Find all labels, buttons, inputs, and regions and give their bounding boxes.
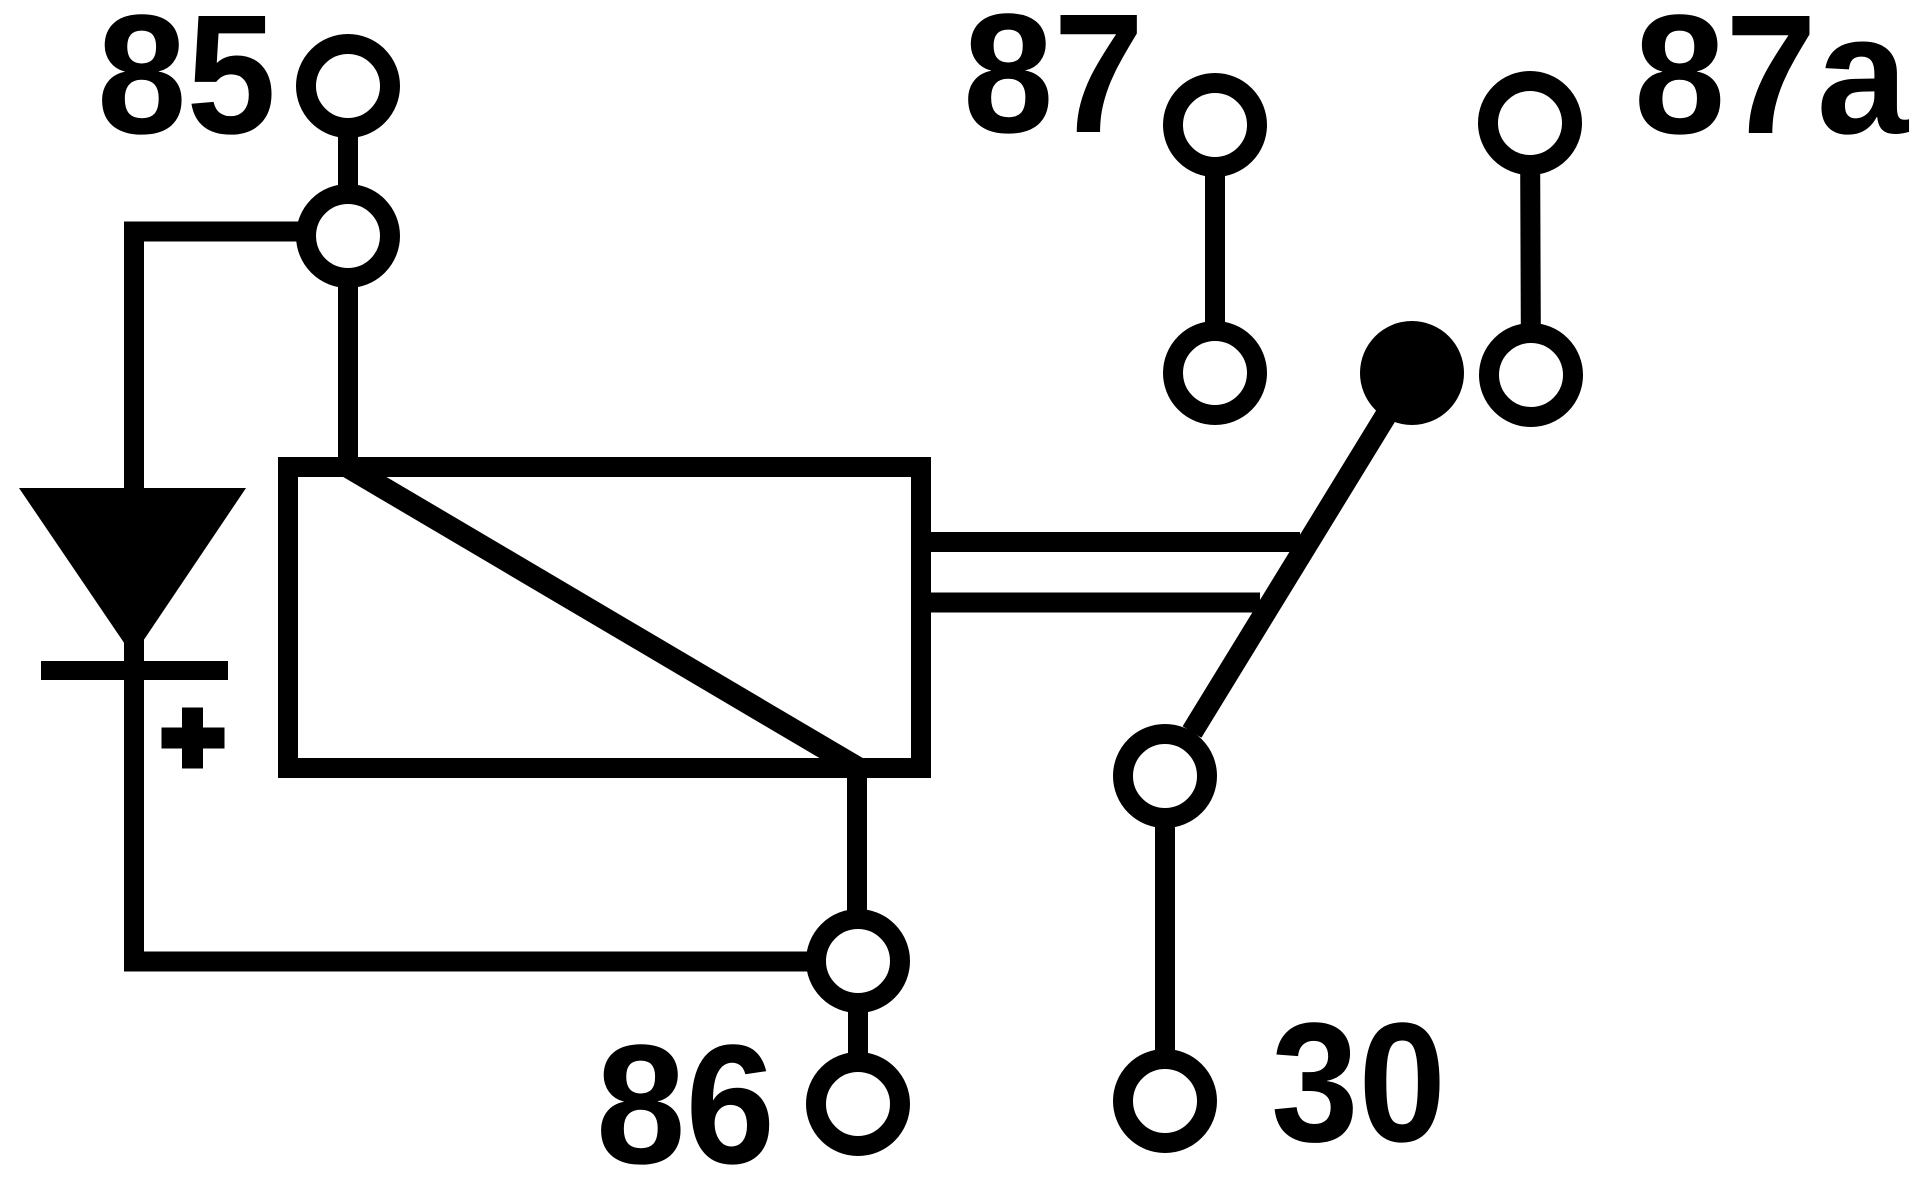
- terminal 87 circle: [1173, 83, 1257, 167]
- coil diagonal: [348, 467, 858, 768]
- wire: 87a upper to 87a lower contact: [1530, 123, 1531, 375]
- diode D1 cathode bar: [41, 661, 228, 680]
- wire: coil box bottom stub to 86 junction circle: [847, 770, 867, 961]
- svg-text:30: 30: [1271, 988, 1446, 1177]
- svg-text:87a: 87a: [1634, 0, 1909, 170]
- actuator link upper line: [921, 532, 1300, 552]
- wire: junction circle down to coil box top: [338, 236, 358, 477]
- diode polarity plus sign: [162, 708, 225, 769]
- terminal 85 circle: [306, 44, 390, 128]
- terminal 87a circle: [1488, 81, 1572, 165]
- diode D1 anode triangle: [19, 488, 246, 656]
- terminal 30 circle: [1123, 1059, 1207, 1143]
- actuator link lower line: [921, 593, 1260, 613]
- wire: 87 upper to 87 lower contact: [1205, 125, 1225, 373]
- switch pivot circle: [1123, 734, 1207, 818]
- svg-text:87: 87: [963, 0, 1144, 169]
- switch arm contact dot: [1360, 321, 1464, 425]
- terminal 86 circle: [816, 1062, 900, 1146]
- coil box (relay coil): [288, 467, 921, 768]
- svg-text:85: 85: [97, 0, 276, 170]
- wire: 86 junction to 86 terminal: [848, 961, 868, 1104]
- 86 junction circle: [816, 919, 900, 1003]
- wire: 85 terminal to junction circle: [338, 86, 358, 236]
- wire: left branch from junction circle, down past diode, along bottom to terminal 86: [134, 232, 858, 962]
- 87 fixed contact circle: [1173, 331, 1257, 415]
- 87a fixed contact circle: [1489, 333, 1573, 417]
- svg-text:86: 86: [596, 1010, 775, 1177]
- wire: switch pivot to terminal 30: [1155, 776, 1175, 1101]
- junction circle below 85: [306, 194, 390, 278]
- switch arm (movable contact): [1192, 373, 1412, 732]
